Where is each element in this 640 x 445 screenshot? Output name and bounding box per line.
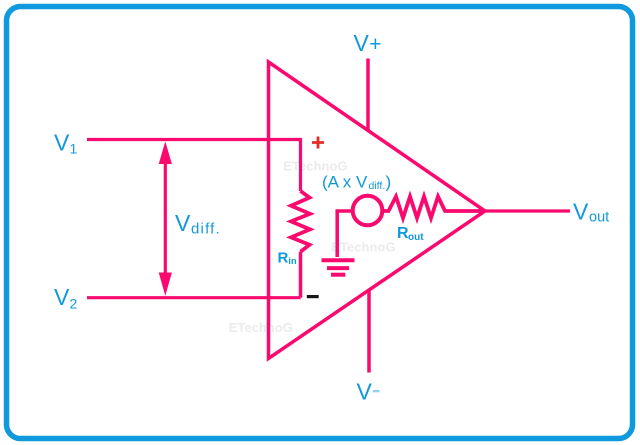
svg-text:diff.: diff. bbox=[369, 180, 386, 192]
svg-text:2: 2 bbox=[70, 296, 78, 312]
svg-text:V: V bbox=[54, 284, 70, 310]
svg-text:V: V bbox=[175, 210, 191, 236]
svg-text:): ) bbox=[386, 173, 392, 192]
svg-text:out: out bbox=[408, 232, 424, 243]
svg-text:V: V bbox=[54, 130, 70, 156]
svg-text:diff.: diff. bbox=[191, 221, 221, 238]
svg-text:ETechnoG: ETechnoG bbox=[283, 159, 347, 174]
svg-text:1: 1 bbox=[70, 141, 78, 157]
svg-text:ETechnoG: ETechnoG bbox=[331, 240, 395, 255]
svg-text:V: V bbox=[573, 199, 589, 225]
svg-text:(A x V: (A x V bbox=[322, 173, 368, 192]
svg-text:ETechnoG: ETechnoG bbox=[229, 320, 293, 335]
svg-text:+: + bbox=[369, 33, 381, 56]
svg-text:R: R bbox=[278, 250, 289, 267]
svg-text:V: V bbox=[357, 379, 373, 405]
svg-text:in: in bbox=[288, 256, 297, 267]
svg-text:V: V bbox=[354, 30, 370, 56]
svg-text:out: out bbox=[589, 210, 609, 226]
